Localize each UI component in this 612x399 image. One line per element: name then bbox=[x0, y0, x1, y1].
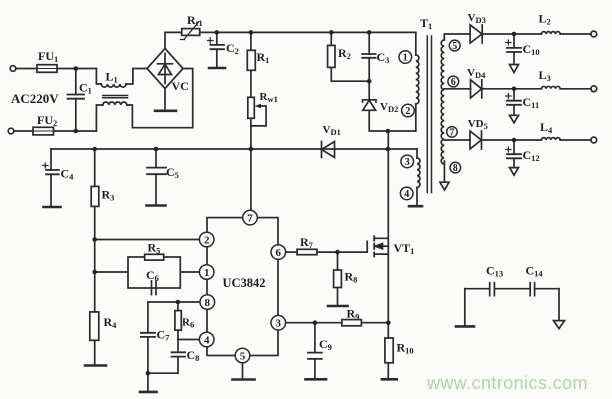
svg-text:6: 6 bbox=[451, 77, 456, 88]
svg-text:8: 8 bbox=[453, 163, 458, 174]
svg-text:2: 2 bbox=[204, 235, 210, 247]
svg-text:5: 5 bbox=[452, 41, 457, 52]
svg-text:1: 1 bbox=[204, 267, 210, 279]
svg-text:5: 5 bbox=[240, 351, 246, 363]
svg-text:7: 7 bbox=[449, 127, 454, 138]
svg-text:www.cntronics.com: www.cntronics.com bbox=[426, 373, 588, 393]
svg-text:VC: VC bbox=[172, 79, 189, 93]
svg-text:3: 3 bbox=[276, 318, 282, 330]
svg-text:6: 6 bbox=[276, 247, 282, 259]
svg-text:4: 4 bbox=[204, 335, 210, 347]
svg-text:7: 7 bbox=[247, 213, 253, 225]
svg-text:4: 4 bbox=[404, 189, 409, 200]
svg-text:UC3842: UC3842 bbox=[223, 276, 266, 290]
svg-text:8: 8 bbox=[205, 297, 211, 309]
svg-text:1: 1 bbox=[403, 53, 408, 64]
svg-text:2: 2 bbox=[405, 106, 410, 117]
svg-text:AC220V: AC220V bbox=[11, 91, 59, 106]
svg-text:3: 3 bbox=[405, 157, 410, 168]
